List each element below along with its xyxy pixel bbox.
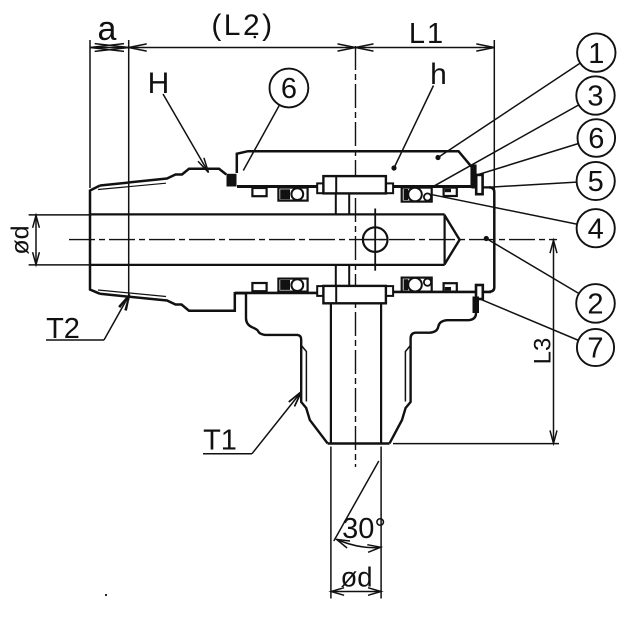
- svg-text:5: 5: [588, 166, 604, 198]
- svg-text:4: 4: [588, 213, 604, 245]
- svg-text:a: a: [98, 10, 117, 48]
- svg-text:T2: T2: [46, 313, 80, 345]
- svg-text:1: 1: [588, 38, 604, 70]
- svg-text:3: 3: [587, 81, 603, 113]
- svg-text:ød: ød: [340, 562, 372, 593]
- svg-text:2: 2: [587, 289, 603, 321]
- svg-text:6: 6: [281, 73, 297, 105]
- svg-text:6: 6: [588, 123, 604, 155]
- svg-text:L1: L1: [409, 18, 445, 50]
- svg-text:H: H: [148, 67, 170, 100]
- svg-text:T1: T1: [203, 425, 237, 457]
- svg-text:30°: 30°: [342, 513, 386, 545]
- svg-text:h: h: [430, 58, 447, 91]
- svg-text:7: 7: [587, 333, 603, 365]
- svg-text:L3: L3: [530, 338, 557, 365]
- svg-text:(L2): (L2): [211, 9, 274, 42]
- svg-text:ød: ød: [7, 225, 35, 254]
